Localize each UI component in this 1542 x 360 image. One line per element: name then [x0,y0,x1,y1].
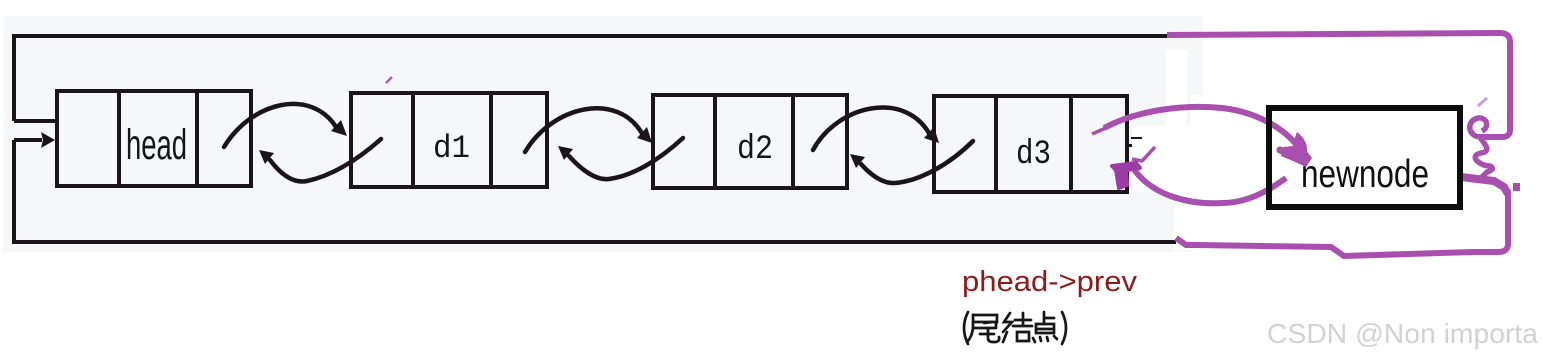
svg-text:d1: d1 [433,130,470,167]
svg-text:head: head [126,121,187,169]
svg-text:CSDN @Non importa: CSDN @Non importa [1267,318,1538,349]
svg-text:d2: d2 [737,131,773,169]
svg-text:newnode: newnode [1301,153,1429,196]
svg-text:phead->prev: phead->prev [962,266,1138,298]
svg-text:d3: d3 [1016,136,1051,174]
